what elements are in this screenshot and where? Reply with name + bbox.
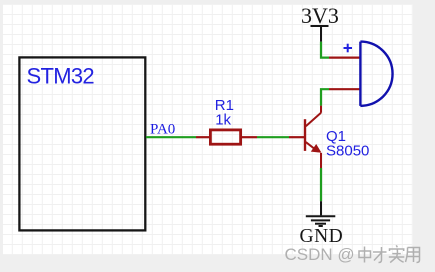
zhong [359, 247, 371, 263]
svg-text:CSDN @: CSDN @ [285, 245, 355, 264]
watermark chinese glyphs [359, 245, 420, 262]
yong [406, 248, 420, 263]
plus polarity mark [344, 44, 353, 53]
buzzer pin 2 [329, 88, 360, 90]
wire R1 to Q1 base [257, 136, 289, 138]
svg-text:3V3: 3V3 [301, 3, 339, 28]
resistor R1 pin 1 [196, 136, 210, 138]
wire Q1 emitter to GND [320, 168, 322, 201]
resistor R1 pin 2 [241, 136, 257, 138]
MCU STM32 box [19, 57, 145, 230]
buzzer LS1 body [360, 42, 392, 106]
wire Q1 collector to buzzer [321, 89, 329, 105]
shi [389, 245, 405, 262]
transistor Q1 NPN [305, 106, 322, 168]
watermark CSDN [285, 245, 355, 264]
ground GND [306, 201, 336, 226]
svg-text:S8050: S8050 [326, 143, 369, 160]
svg-text:PA0: PA0 [150, 122, 175, 138]
transistor Q1 base pin [289, 136, 305, 138]
power port 3V3 [311, 26, 329, 42]
svg-text:1k: 1k [215, 112, 231, 129]
svg-text:STM32: STM32 [27, 63, 95, 88]
cai [373, 247, 387, 263]
buzzer pin 1 (+) [329, 56, 360, 58]
wire 3V3 to buzzer [321, 42, 329, 58]
resistor R1 body [210, 130, 240, 144]
svg-text:GND: GND [300, 226, 344, 247]
wire PA0 from STM32 to R1 [146, 136, 196, 138]
